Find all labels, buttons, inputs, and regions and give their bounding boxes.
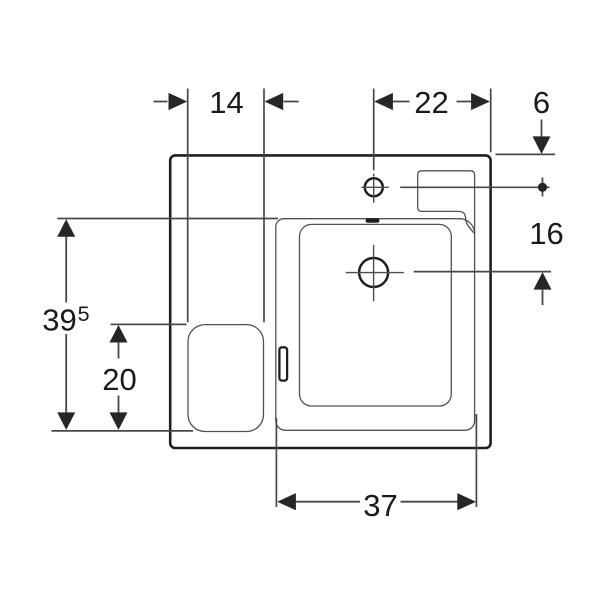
reference line y=430.9 (bottom of 39.5 / 20)	[52, 430, 194, 432]
overflow slot mark	[366, 218, 380, 223]
reference line y=218.5 (top of 39.5)	[57, 218, 278, 220]
basin rim outer edge	[276, 219, 475, 431]
reference line from tap hole with end dot	[400, 178, 549, 197]
drain circle	[359, 258, 388, 287]
reference line y=324.4 (top of 20)	[111, 323, 187, 325]
extension line x=490.7 (dim 22 right)	[490, 89, 492, 153]
inner bowl edge	[300, 224, 452, 406]
extension line x=373.7 (dim 22 left, to tap hole)	[373, 89, 375, 171]
extension line x=264 (dim 14 right)	[263, 89, 265, 323]
dimension 16: reference line, arrow, tail	[414, 272, 551, 305]
tap bank outline (top right)	[418, 171, 475, 234]
towel-bar mark on rim	[279, 347, 287, 380]
svg-text:22: 22	[414, 85, 448, 120]
extension lines for dim 37	[276, 414, 476, 507]
dimension 14: arrows and line	[154, 101, 299, 103]
dimension 6: tail, arrow, reference line	[496, 120, 556, 155]
washbasin outer ceramic edge (thick outline)	[170, 155, 490, 448]
svg-text:20: 20	[102, 362, 136, 397]
dimension 20 line and arrows	[118, 342, 120, 414]
drain center crosshair	[346, 245, 404, 301]
dimension 22: arrows and line	[392, 101, 473, 103]
svg-text:39: 39	[42, 303, 76, 338]
extension line x=187.7 (dim 14 left)	[187, 89, 189, 323]
tap hole circle	[365, 178, 383, 196]
dimension 39.5 line and arrows	[65, 236, 67, 414]
dimension 37 line and arrows	[296, 501, 458, 503]
boundary dot	[538, 183, 547, 192]
tap hole center crosshair	[361, 174, 388, 203]
shelf recess (left)	[188, 325, 264, 432]
svg-text:14: 14	[209, 85, 243, 120]
svg-text:6: 6	[533, 85, 550, 120]
svg-text:37: 37	[363, 488, 397, 523]
svg-text:5: 5	[78, 302, 90, 326]
svg-text:16: 16	[529, 216, 563, 251]
